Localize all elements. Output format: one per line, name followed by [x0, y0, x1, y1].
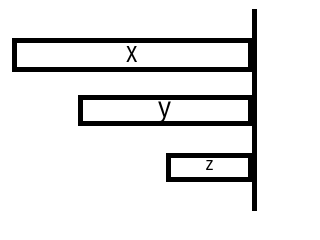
axis vertical line	[252, 9, 257, 211]
bar y	[78, 95, 253, 126]
label y	[78, 92, 251, 124]
label z	[167, 151, 253, 177]
label x	[12, 36, 252, 68]
bar z	[166, 153, 253, 182]
bar x	[12, 38, 253, 73]
